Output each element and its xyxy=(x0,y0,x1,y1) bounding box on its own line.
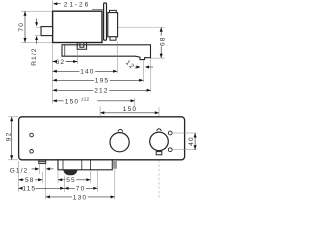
svg-text:130: 130 xyxy=(73,194,87,200)
svg-text:212: 212 xyxy=(94,88,108,95)
svg-text:70: 70 xyxy=(18,22,25,32)
svg-text:70: 70 xyxy=(76,186,86,193)
svg-text:140: 140 xyxy=(80,69,94,76)
svg-text:150: 150 xyxy=(65,98,79,105)
svg-text:G1/2: G1/2 xyxy=(10,167,29,174)
svg-text:55: 55 xyxy=(66,177,76,184)
svg-text:68: 68 xyxy=(160,36,167,46)
svg-text:±12: ±12 xyxy=(81,96,89,101)
svg-text:92: 92 xyxy=(5,132,12,142)
svg-text:R1/2: R1/2 xyxy=(31,47,38,65)
svg-text:195: 195 xyxy=(95,78,109,85)
svg-text:40: 40 xyxy=(188,136,195,146)
svg-text:150: 150 xyxy=(123,106,137,113)
svg-text:58: 58 xyxy=(25,177,35,184)
svg-text:21-26: 21-26 xyxy=(64,1,90,8)
svg-text:115: 115 xyxy=(22,186,36,193)
svg-text:62: 62 xyxy=(56,59,66,66)
